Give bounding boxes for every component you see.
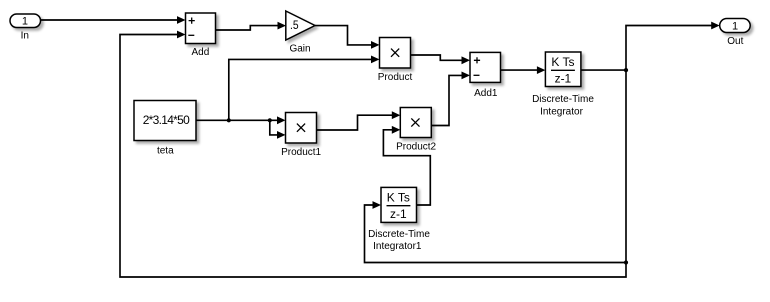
port sign minus of Add input 2 — [188, 34, 194, 36]
svg-text:Product1: Product1 — [281, 147, 321, 158]
multiply sign of Product2 — [411, 118, 419, 126]
outport block Out — [720, 19, 751, 33]
discrete-time integrator block Discrete-Time Integrator — [545, 52, 581, 87]
wire Add output to Gain input — [216, 22, 287, 30]
svg-text:K Ts: K Ts — [551, 55, 574, 69]
port sign minus of Add1 input 2 — [474, 74, 480, 76]
wire from output junction down to lower-right junction — [625, 70, 627, 262]
constant block teta — [134, 101, 196, 141]
discrete-time integrator block Discrete-Time Integrator1 — [381, 187, 417, 222]
svg-text:Integrator1: Integrator1 — [373, 241, 422, 252]
wire Product1 output to Product2 top input — [317, 111, 401, 130]
multiply sign of Product1 — [297, 124, 305, 132]
wire from junction B down to Product1 bottom input — [270, 120, 286, 139]
junction lower-right feedback — [624, 260, 628, 264]
wire lower-right junction to Discrete-Time Integrator1 input — [365, 201, 627, 262]
wire Gain output to Product top input — [315, 26, 380, 49]
svg-text:In: In — [21, 31, 29, 42]
product block Product2 — [400, 108, 431, 138]
inport block In — [10, 14, 41, 28]
svg-text:.5: .5 — [290, 18, 299, 32]
gain block Gain — [286, 11, 315, 40]
junction B on teta output wire — [268, 118, 272, 122]
junction on Discrete-Time Integrator output wire — [624, 68, 628, 72]
wire In outport to Add plus input — [41, 16, 186, 24]
svg-text:1: 1 — [22, 16, 28, 28]
sum block Add1 — [470, 52, 501, 82]
junction A on teta output wire — [227, 118, 231, 122]
svg-text:Product2: Product2 — [396, 142, 436, 153]
wire feedback from lower-right junction to Add minus input — [120, 31, 626, 277]
svg-text:Out: Out — [727, 36, 743, 47]
fraction bar of Discrete-Time Integrator1 — [387, 205, 411, 207]
svg-text:Discrete-Time: Discrete-Time — [532, 94, 594, 105]
svg-text:K Ts: K Ts — [387, 190, 410, 204]
port sign plus of Add1 input 1 — [474, 57, 480, 63]
sum block Add — [186, 13, 216, 44]
wire from junction A up to Product bottom input — [229, 56, 380, 121]
wire Discrete-Time Integrator output to Out outport — [581, 22, 720, 71]
svg-text:Discrete-Time: Discrete-Time — [368, 229, 430, 240]
wire Product output to Add1 plus input — [411, 55, 471, 64]
svg-text:Gain: Gain — [289, 43, 310, 54]
svg-text:2*3.14*50: 2*3.14*50 — [143, 113, 190, 127]
svg-text:Product: Product — [378, 72, 413, 83]
multiply sign of Product — [391, 49, 399, 57]
svg-text:teta: teta — [157, 145, 174, 156]
svg-text:Integrator: Integrator — [540, 106, 583, 117]
wire Add1 output to Discrete-Time Integrator input — [501, 66, 546, 74]
svg-text:z-1: z-1 — [555, 72, 572, 86]
svg-text:Add1: Add1 — [474, 88, 498, 99]
svg-text:1: 1 — [732, 20, 738, 32]
fraction bar of Discrete-Time Integrator — [551, 69, 575, 71]
port sign plus of Add input 1 — [189, 18, 195, 24]
product block Product1 — [286, 113, 317, 144]
product block Product — [380, 38, 411, 69]
wire Discrete-Time Integrator1 output to Product2 bottom input — [383, 126, 430, 205]
wire teta output to Product1 top input — [196, 116, 286, 124]
svg-text:z-1: z-1 — [390, 207, 407, 221]
wire Product2 output to Add1 minus input — [431, 72, 470, 126]
svg-text:Add: Add — [192, 47, 210, 58]
